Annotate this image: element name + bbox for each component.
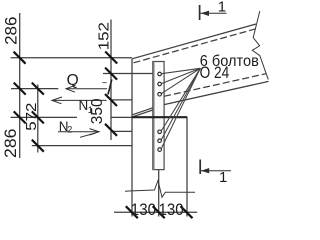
bolt 1 bbox=[158, 72, 162, 76]
tick V5 N2 bbox=[105, 124, 117, 136]
svg-text:130: 130 bbox=[159, 201, 184, 219]
tick V1 h3 bbox=[14, 111, 26, 123]
tick dim bottom left bbox=[126, 206, 138, 218]
lower dashed gauge L4 bbox=[164, 74, 266, 97]
leader bolt 5 bbox=[161, 68, 200, 140]
extension line hb bbox=[103, 73, 153, 75]
bolt 4 bbox=[158, 130, 162, 134]
leader bolt 6 bbox=[161, 68, 200, 149]
svg-text:1: 1 bbox=[88, 105, 93, 115]
tick V3 h4 bbox=[32, 140, 44, 152]
svg-text:130: 130 bbox=[131, 201, 156, 219]
small mark left of V5 bbox=[102, 82, 106, 84]
svg-text:286: 286 bbox=[1, 129, 19, 158]
tick V5 h1 bbox=[105, 52, 117, 64]
extension line h3 left bbox=[11, 116, 78, 118]
extension line h2 bbox=[11, 88, 58, 90]
bolt 3 bbox=[158, 92, 162, 96]
svg-text:286: 286 bbox=[2, 17, 21, 45]
leader bolt 1 bbox=[161, 68, 200, 73]
bolt 2 bbox=[158, 82, 162, 86]
bolt 5 bbox=[158, 139, 162, 143]
extension line N1 level bbox=[111, 99, 132, 101]
force arrow N1 bbox=[52, 97, 107, 104]
gusset slant L5a bbox=[133, 108, 153, 115]
extension line h1 top bbox=[11, 57, 132, 59]
svg-text:1: 1 bbox=[218, 0, 226, 16]
extension line h3 mid bbox=[111, 116, 164, 118]
dimension line V1 left bbox=[19, 13, 21, 158]
column left edge bbox=[131, 59, 133, 217]
tick V3 h3 bbox=[32, 111, 44, 123]
svg-text:О 24: О 24 bbox=[200, 64, 230, 82]
flange plate bbox=[153, 62, 164, 170]
tick V1 h2 bbox=[14, 83, 26, 95]
support table thick line bbox=[132, 116, 187, 118]
svg-text:2: 2 bbox=[67, 125, 72, 135]
svg-text:1: 1 bbox=[219, 169, 227, 186]
tick V5 N1 bbox=[105, 94, 117, 106]
column cut line with break bbox=[125, 181, 195, 198]
beam top edge L1 bbox=[132, 24, 256, 59]
bottom dimension line bbox=[114, 211, 197, 213]
svg-text:152: 152 bbox=[97, 22, 113, 50]
tick V1 h1 bbox=[14, 52, 26, 64]
beam break line bbox=[252, 11, 268, 80]
extension line h4 bbox=[32, 145, 132, 147]
gusset slant L5b bbox=[133, 110, 153, 117]
tick dim bottom mid bbox=[153, 206, 165, 218]
bolt 6 bbox=[158, 148, 162, 152]
svg-text:N: N bbox=[79, 98, 89, 113]
beam bottom edge L6 bbox=[164, 81, 268, 104]
force arrow N2 bbox=[58, 129, 99, 138]
leader bolt 4 bbox=[161, 68, 200, 131]
extension line N2 level bbox=[111, 130, 132, 132]
force arrow Q bbox=[66, 85, 107, 92]
extension line plate axis bbox=[158, 170, 160, 217]
beam axis dashed L2 bbox=[134, 29, 258, 63]
dimension line V5 right (152/350) bbox=[110, 20, 112, 141]
support table edge / extension right bbox=[186, 117, 188, 217]
tick dim bottom right bbox=[181, 206, 193, 218]
svg-text:572: 572 bbox=[24, 102, 40, 130]
svg-text:Q: Q bbox=[67, 72, 79, 89]
dimension line V3 (572) bbox=[37, 85, 39, 153]
tick V5 hb bbox=[105, 68, 117, 80]
leader bolt 3 bbox=[161, 68, 200, 93]
section mark 1 top bbox=[200, 5, 227, 20]
section mark 1 bottom bbox=[200, 160, 231, 175]
tick V3 h2 bbox=[32, 83, 44, 95]
steep slash at Q line on V5 bbox=[108, 80, 112, 95]
leader bolt 2 bbox=[161, 68, 200, 83]
